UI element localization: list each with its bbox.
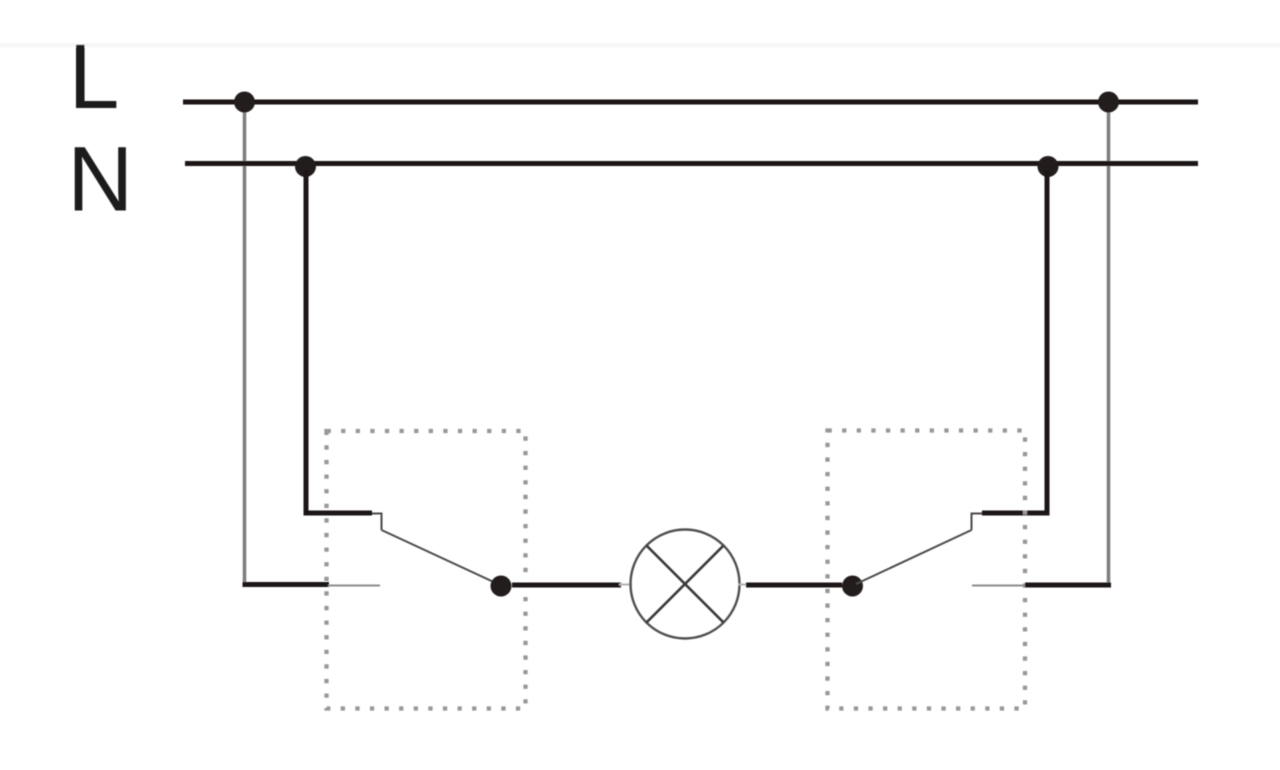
faint horizontal band artifact <box>0 43 1280 47</box>
svg-text:N: N <box>67 129 133 231</box>
node L-right junction <box>1098 92 1119 113</box>
wire N bus <box>185 161 1198 166</box>
node L-left junction <box>234 92 255 113</box>
switch S1 lever <box>382 530 499 584</box>
switch S1 pivot dot <box>491 576 512 597</box>
wire L bus <box>183 100 1198 105</box>
switch S2 lever <box>856 530 972 584</box>
switch S2 enclosure (dotted box) <box>828 431 1026 709</box>
lamp right lead stub <box>738 584 751 586</box>
node N-right junction <box>1038 156 1059 177</box>
switch S2 upper contact jog <box>972 514 983 531</box>
switch S1 enclosure (dotted box) <box>327 431 526 709</box>
node N-left junction <box>295 156 316 177</box>
switch S2 pivot dot <box>842 576 863 597</box>
lamp left lead stub <box>619 584 632 586</box>
wire lamp to S2 <box>746 583 842 588</box>
wire N-right drop to switch S2 <box>982 170 1047 513</box>
switch S2 lower contact stub (gray) <box>972 585 1026 587</box>
lamp E1 circle <box>631 530 740 639</box>
wire gray drop from L-left <box>243 110 247 585</box>
switch S1 lower contact stub (gray) <box>328 585 380 587</box>
wire S2 lower feed (black) <box>1025 583 1111 588</box>
switch S1 upper contact jog <box>372 514 382 531</box>
wire S1 lower feed (black) <box>243 582 330 587</box>
svg-text:L: L <box>69 26 120 128</box>
wire S1 to lamp <box>512 583 621 588</box>
wire gray drop from L-right <box>1107 110 1111 584</box>
wire N-left drop to switch S1 <box>306 170 372 513</box>
lamp E1 cross <box>646 545 723 622</box>
